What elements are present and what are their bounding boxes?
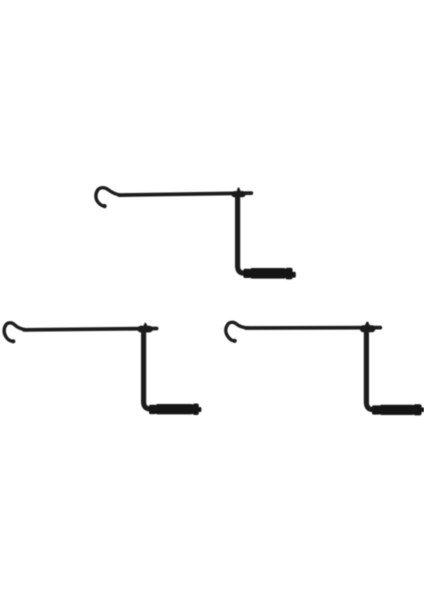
hook tip (crank 2) <box>11 339 15 343</box>
horizontal shaft (crank 3) <box>246 326 380 330</box>
crank handle 3 (bottom right) <box>226 322 424 416</box>
hub top nub (crank 3) <box>365 322 370 326</box>
horizontal shaft (crank 1) <box>119 193 251 195</box>
grip left collar (crank 3) <box>372 405 380 414</box>
grip end nub (crank 3) <box>421 407 424 412</box>
hub clamp left lobe (crank 3) <box>360 325 367 332</box>
hub clamp body (crank 2) <box>138 326 152 333</box>
hook (crank 1) <box>96 188 122 207</box>
crank arm vertical rod with elbow (crank 2) <box>144 330 153 409</box>
crank arm vertical rod with elbow (crank 1) <box>238 195 247 273</box>
crank handle 2 (bottom left) <box>4 323 201 415</box>
hub top nub (crank 2) <box>143 323 147 327</box>
hub clamp right lobe (crank 2) <box>145 326 153 333</box>
grip body (crank 2) <box>156 404 193 414</box>
grip left collar (crank 1) <box>243 269 250 278</box>
grip left collar (crank 2) <box>149 405 156 414</box>
horizontal shaft (crank 2) <box>24 329 157 330</box>
grip end ring (crank 3) <box>413 404 421 415</box>
hub clamp left lobe (crank 2) <box>138 326 145 333</box>
grip end ring (crank 2) <box>193 404 199 416</box>
grip end nub (crank 1) <box>292 272 296 278</box>
hook (crank 2) <box>4 323 27 342</box>
grip body (crank 3) <box>380 405 415 415</box>
hub clamp body (crank 3) <box>360 325 375 332</box>
grip body (crank 1) <box>250 268 286 279</box>
grip end nub (crank 2) <box>198 407 201 412</box>
hub top nub (crank 1) <box>237 188 241 192</box>
hub clamp right lobe (crank 1) <box>238 191 246 197</box>
hook (crank 3) <box>226 322 248 341</box>
hub clamp right lobe (crank 3) <box>367 325 375 332</box>
hook tip (crank 3) <box>233 339 237 343</box>
hub clamp body (crank 1) <box>232 191 246 197</box>
crank handle 1 (top center) <box>96 188 296 280</box>
hook tip (crank 1) <box>103 204 107 208</box>
grip end ring (crank 1) <box>285 268 292 280</box>
crank arm vertical rod with elbow (crank 3) <box>366 330 375 410</box>
hub clamp left lobe (crank 1) <box>231 191 238 197</box>
